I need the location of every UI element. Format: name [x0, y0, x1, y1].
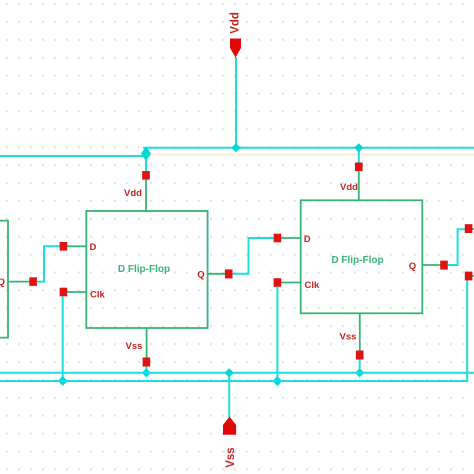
label Vdd U2 [340, 182, 358, 193]
junction U1 Vss on vss bus [142, 368, 151, 377]
pin square U2 D [274, 234, 282, 243]
junction U2 Clk on clk bus [273, 376, 283, 386]
wire vss bus [0, 372, 474, 374]
wire U1 Vdd pin to vdd bus [145, 148, 147, 172]
pin square U1 Vdd [142, 171, 150, 180]
pin square U2 Vss [356, 351, 364, 360]
wire U1 Vss pin to vss bus [145, 367, 147, 374]
pin stub U1 Clk [67, 291, 87, 293]
pin stub U2 Vdd [358, 171, 360, 200]
pin square U3 Clk (partial right) [465, 272, 473, 281]
wire U2 Vss pin to vss bus [359, 360, 361, 374]
svg-text:D: D [304, 234, 311, 245]
pin stub U2 Q [422, 264, 440, 266]
pin stub U3 Clk [472, 275, 474, 277]
pin stub U1 D [67, 245, 87, 247]
svg-text:Clk: Clk [90, 290, 106, 301]
power symbol VSS [223, 417, 236, 435]
svg-text:Q: Q [197, 269, 204, 280]
label Vss U1 [126, 341, 143, 352]
power symbol VDD [230, 39, 241, 58]
svg-text:Clk: Clk [305, 280, 321, 291]
D flip-flop U2 box [301, 200, 423, 313]
svg-text:Vss: Vss [340, 331, 357, 342]
label Clk U2 [305, 280, 321, 291]
label Vss supply [225, 447, 237, 467]
label Vdd U1 [124, 188, 142, 199]
junction U1 Clk on clk bus [58, 376, 68, 386]
label D Flip-Flop U2 [331, 255, 383, 266]
pin square U2 Q [440, 261, 448, 270]
wire U1 Clk down to clk bus [62, 296, 64, 381]
wire VDD supply to vdd bus [235, 57, 237, 148]
pin square U1 Vss [143, 358, 151, 367]
pin stub U2 Vss [359, 313, 361, 350]
wire U2 Q to U3 D [448, 229, 465, 265]
pin square U1 Q [225, 269, 233, 278]
label Q U0 [0, 277, 5, 288]
pin stub U2 D [281, 237, 301, 239]
wire vdd bus left segment [0, 155, 147, 157]
label Q U2 [409, 261, 416, 272]
junction VSS supply on vss bus [225, 368, 234, 377]
svg-text:D Flip-Flop: D Flip-Flop [331, 255, 383, 266]
svg-text:Vss: Vss [126, 341, 143, 352]
wire U2 Clk down to clk bus [276, 287, 278, 381]
svg-text:D Flip-Flop: D Flip-Flop [118, 264, 170, 275]
svg-text:Vdd: Vdd [124, 188, 142, 199]
label Q U1 [197, 269, 204, 280]
svg-text:Q: Q [0, 277, 5, 288]
label Vss U2 [340, 331, 357, 342]
wire U1 Q to U2 D [233, 238, 274, 274]
junction U1 Vdd tap on vdd bus [141, 147, 151, 161]
wire VSS supply to vss bus [228, 373, 230, 417]
label D U2 [304, 234, 311, 245]
svg-text:Q: Q [409, 261, 416, 272]
wire U2 Vdd pin to vdd bus [358, 148, 360, 164]
wire clk bus with riser to U3 Clk [0, 280, 467, 381]
pin square U3 D (partial right) [465, 224, 473, 233]
pin square U2 Clk [274, 278, 282, 287]
pin stub U3 D [472, 228, 474, 230]
pin square U2 Vdd [355, 163, 363, 172]
pin square U0 Q [29, 277, 37, 286]
wire vdd bus right segment [143, 147, 474, 149]
svg-text:Vdd: Vdd [340, 182, 358, 193]
pin stub U2 Clk [281, 282, 301, 284]
svg-text:Vss: Vss [225, 447, 237, 467]
pin stub U0 Q [8, 281, 30, 283]
pin stub U1 Vdd [145, 180, 147, 211]
pin square U1 Clk [60, 288, 68, 297]
junction U2 Vdd tap on vdd bus [354, 143, 363, 152]
pin stub U1 Q [208, 273, 226, 275]
wire U0 Q to U1 D [37, 246, 60, 281]
D flip-flop U1 box [86, 211, 207, 328]
label D Flip-Flop U1 [118, 264, 170, 275]
label Clk U1 [90, 290, 106, 301]
svg-text:D: D [90, 242, 97, 253]
D flip-flop U0 box (partial, left edge) [0, 221, 8, 338]
svg-text:Vdd: Vdd [230, 12, 242, 34]
ghost highlight line under vdd bus [146, 154, 474, 156]
pin square U1 D [60, 242, 68, 251]
junction U2 Vss on vss bus [355, 368, 364, 377]
label Vdd supply [230, 12, 242, 34]
pin stub U1 Vss [146, 328, 148, 358]
label D U1 [90, 242, 97, 253]
junction VDD supply on vdd bus [231, 143, 240, 152]
